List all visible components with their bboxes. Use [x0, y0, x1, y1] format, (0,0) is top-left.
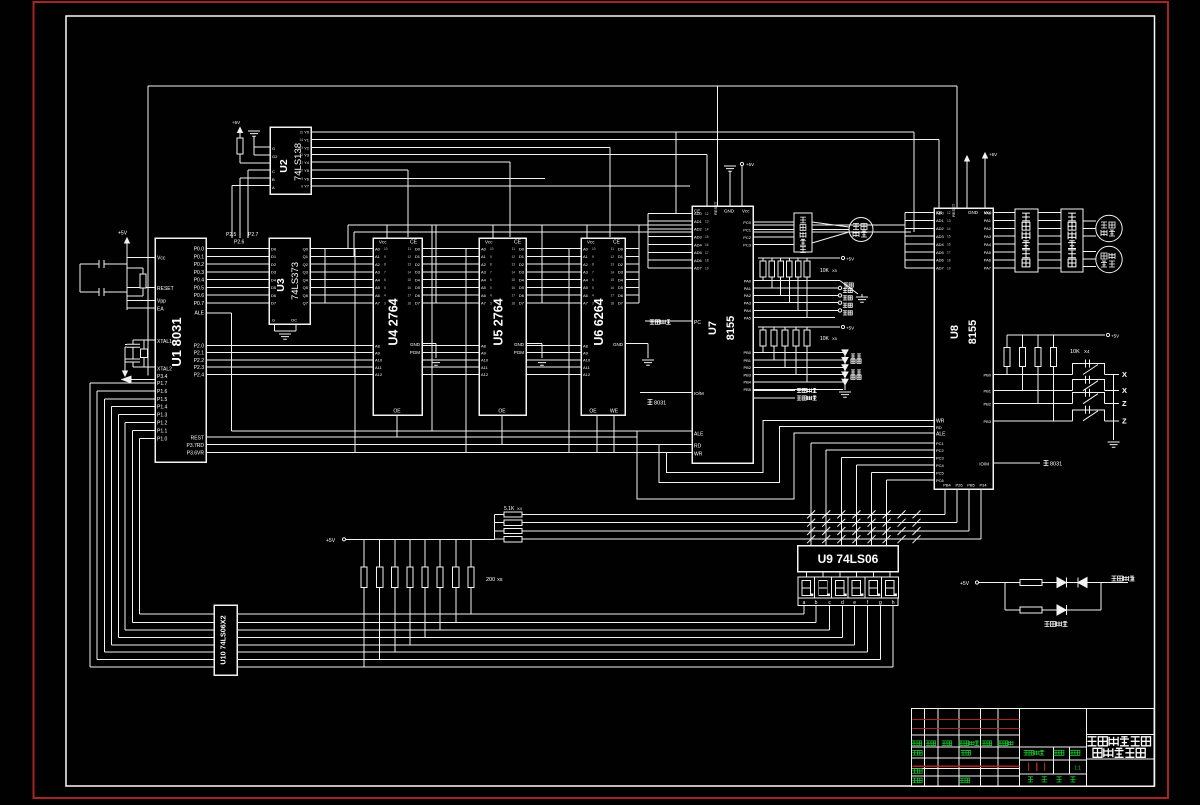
svg-text:D1: D1	[519, 254, 525, 259]
svg-text:A5: A5	[375, 285, 381, 290]
svg-text:12: 12	[407, 255, 411, 259]
svg-text:AD1: AD1	[936, 218, 945, 223]
svg-text:AD2: AD2	[936, 226, 945, 231]
svg-text:OE: OE	[589, 409, 597, 415]
svg-text:Y6: Y6	[304, 176, 310, 181]
svg-text:P1.5: P1.5	[157, 397, 168, 403]
svg-text:PA1: PA1	[744, 286, 752, 291]
svg-text:Y3: Y3	[304, 152, 310, 157]
svg-text:13: 13	[947, 219, 951, 223]
svg-text:A11: A11	[481, 365, 489, 370]
svg-text:A10: A10	[375, 358, 383, 363]
svg-text:AD6: AD6	[694, 258, 703, 263]
svg-text:15: 15	[511, 278, 515, 282]
svg-text:CE: CE	[410, 240, 418, 246]
svg-text:+5V: +5V	[846, 257, 854, 262]
svg-text:REST: REST	[191, 436, 204, 442]
svg-text:X5: X5	[832, 336, 838, 341]
svg-text:P0.6: P0.6	[194, 293, 205, 299]
svg-text:Q5: Q5	[303, 285, 309, 290]
svg-text:8155: 8155	[725, 316, 737, 340]
svg-text:74LS373: 74LS373	[290, 262, 301, 300]
svg-text:9: 9	[301, 177, 303, 181]
svg-text:PA4: PA4	[984, 242, 992, 247]
svg-text:A3: A3	[481, 270, 487, 275]
svg-text:PA0: PA0	[744, 278, 752, 283]
svg-text:17: 17	[511, 294, 515, 298]
svg-text:11: 11	[611, 247, 615, 251]
svg-text:G: G	[272, 318, 275, 323]
svg-text:D7: D7	[271, 301, 277, 306]
svg-text:ALE: ALE	[694, 432, 704, 438]
svg-text:A6: A6	[583, 293, 589, 298]
svg-text:A0: A0	[481, 246, 487, 251]
svg-text:8031: 8031	[654, 401, 666, 407]
svg-text:CE: CE	[613, 240, 621, 246]
svg-text:Vcc: Vcc	[157, 256, 166, 262]
svg-text:D1: D1	[415, 254, 421, 259]
svg-text:Vcc: Vcc	[379, 240, 387, 245]
svg-text:6: 6	[490, 278, 492, 282]
svg-text:10: 10	[384, 247, 388, 251]
svg-text:A4: A4	[583, 277, 589, 282]
svg-text:11: 11	[408, 247, 412, 251]
svg-text:14: 14	[705, 227, 709, 231]
svg-text:8: 8	[301, 184, 303, 188]
svg-text:19: 19	[705, 266, 709, 270]
svg-text:D0: D0	[271, 246, 277, 251]
svg-text:A11: A11	[375, 365, 383, 370]
svg-text:Vcc: Vcc	[587, 240, 595, 245]
svg-text:+5V: +5V	[232, 120, 240, 125]
svg-text:1:1: 1:1	[1074, 766, 1081, 772]
svg-text:P0.3: P0.3	[194, 270, 205, 276]
svg-text:P0.4: P0.4	[194, 278, 205, 284]
svg-text:g: g	[879, 600, 882, 606]
svg-text:17: 17	[705, 251, 709, 255]
svg-text:P0.2: P0.2	[194, 262, 205, 268]
svg-text:PC1: PC1	[743, 227, 752, 232]
svg-text:8031: 8031	[1050, 462, 1062, 468]
svg-text:PB4: PB4	[743, 380, 751, 385]
svg-text:A6: A6	[375, 293, 381, 298]
svg-text:Y7: Y7	[304, 184, 310, 189]
svg-text:D0: D0	[415, 246, 421, 251]
svg-text:4: 4	[384, 294, 386, 298]
svg-text:18: 18	[511, 301, 515, 305]
svg-text:A12: A12	[375, 372, 383, 377]
svg-text:WR: WR	[936, 418, 945, 424]
svg-text:A12: A12	[481, 372, 489, 377]
svg-text:D5: D5	[618, 285, 624, 290]
svg-text:P0.5: P0.5	[194, 285, 205, 291]
svg-text:OC: OC	[291, 318, 297, 323]
svg-text:D2: D2	[415, 262, 421, 267]
svg-text:WR: WR	[694, 452, 703, 458]
svg-text:PB1: PB1	[743, 358, 751, 363]
svg-text:P2.3: P2.3	[194, 365, 205, 371]
svg-text:+5V: +5V	[326, 538, 336, 544]
svg-text:14: 14	[299, 138, 303, 142]
svg-text:Y5: Y5	[304, 168, 310, 173]
svg-text:AD3: AD3	[694, 235, 703, 240]
svg-text:PC: PC	[694, 320, 701, 326]
svg-text:GND: GND	[613, 342, 624, 347]
svg-text:7: 7	[490, 270, 492, 274]
svg-text:14: 14	[610, 270, 614, 274]
svg-text:6: 6	[592, 278, 594, 282]
svg-text:16: 16	[947, 243, 951, 247]
svg-text:AD6: AD6	[936, 258, 945, 263]
svg-text:5.1K: 5.1K	[504, 506, 515, 512]
svg-text:P1.2: P1.2	[157, 421, 168, 427]
svg-text:GND: GND	[514, 342, 525, 347]
svg-text:GND: GND	[410, 342, 421, 347]
svg-text:X5: X5	[832, 268, 838, 273]
svg-text:P1.6: P1.6	[157, 389, 168, 395]
svg-text:12: 12	[610, 255, 614, 259]
svg-text:IO/M: IO/M	[979, 462, 989, 467]
svg-text:19: 19	[947, 266, 951, 270]
svg-text:P1.4: P1.4	[157, 405, 168, 411]
svg-text:14: 14	[947, 227, 951, 231]
svg-text:U8: U8	[949, 325, 961, 339]
svg-text:11: 11	[300, 161, 304, 165]
svg-text:D4: D4	[271, 277, 277, 282]
svg-text:15: 15	[610, 278, 614, 282]
svg-text:200: 200	[486, 577, 495, 583]
svg-text:13: 13	[299, 146, 303, 150]
svg-text:15: 15	[947, 235, 951, 239]
svg-text:13: 13	[511, 263, 515, 267]
svg-text:3: 3	[384, 301, 386, 305]
svg-text:7: 7	[384, 270, 386, 274]
svg-text:P3.7RD: P3.7RD	[186, 443, 204, 449]
svg-text:ALE: ALE	[195, 311, 205, 317]
svg-text:D4: D4	[618, 277, 624, 282]
svg-text:9: 9	[384, 255, 386, 259]
svg-text:10K: 10K	[1070, 349, 1080, 355]
svg-text:P3.6VR: P3.6VR	[187, 451, 205, 457]
svg-text:P2.4: P2.4	[194, 372, 205, 378]
svg-text:8: 8	[592, 263, 594, 267]
svg-text:AD1: AD1	[694, 219, 703, 224]
svg-text:10K: 10K	[820, 336, 830, 342]
svg-text:11: 11	[512, 247, 516, 251]
svg-text:EA: EA	[157, 307, 164, 313]
svg-text:13: 13	[407, 263, 411, 267]
svg-text:XTAL2: XTAL2	[157, 367, 172, 373]
svg-text:PC5: PC5	[936, 470, 945, 475]
svg-text:+5V: +5V	[846, 326, 854, 331]
svg-text:RESET: RESET	[713, 201, 718, 215]
svg-text:RESET: RESET	[951, 203, 956, 217]
svg-text:16: 16	[511, 286, 515, 290]
svg-text:3: 3	[592, 301, 594, 305]
svg-text:A4: A4	[375, 277, 381, 282]
svg-text:18: 18	[705, 259, 709, 263]
svg-text:Z: Z	[1122, 399, 1127, 408]
svg-text:h: h	[892, 600, 895, 606]
svg-text:Q4: Q4	[303, 277, 309, 282]
svg-text:4: 4	[490, 294, 492, 298]
svg-text:P2.5: P2.5	[226, 232, 237, 238]
svg-text:+5V: +5V	[746, 162, 754, 167]
svg-text:18: 18	[407, 301, 411, 305]
svg-text:CE: CE	[514, 240, 522, 246]
svg-text:Q0: Q0	[303, 246, 309, 251]
svg-text:A11: A11	[583, 365, 591, 370]
svg-text:D2: D2	[519, 262, 525, 267]
svg-text:10K: 10K	[820, 268, 830, 274]
svg-text:+5V: +5V	[118, 231, 128, 237]
svg-text:Vcc: Vcc	[485, 240, 493, 245]
svg-text:PGM: PGM	[514, 350, 525, 355]
svg-text:Y0: Y0	[304, 130, 310, 135]
svg-text:a: a	[803, 600, 806, 606]
svg-text:D3: D3	[618, 270, 624, 275]
svg-text:+5V: +5V	[1111, 334, 1119, 339]
svg-text:A0: A0	[375, 246, 381, 251]
svg-text:Y4: Y4	[304, 160, 310, 165]
svg-text:18: 18	[947, 258, 951, 262]
svg-text:A7: A7	[375, 301, 381, 306]
svg-text:U4 2764: U4 2764	[387, 298, 401, 345]
svg-text:P34: P34	[979, 483, 987, 488]
svg-text:A3: A3	[375, 270, 381, 275]
svg-text:Q1: Q1	[303, 254, 309, 259]
svg-text:PB3: PB3	[983, 419, 991, 424]
svg-text:12: 12	[947, 211, 951, 215]
svg-text:17: 17	[407, 294, 411, 298]
svg-text:A12: A12	[583, 372, 591, 377]
svg-text:PA1: PA1	[984, 218, 992, 223]
svg-text:P1.7: P1.7	[157, 381, 168, 387]
svg-text:X: X	[1122, 370, 1127, 379]
svg-text:A7: A7	[481, 301, 487, 306]
svg-text:12: 12	[511, 255, 515, 259]
svg-text:16: 16	[407, 286, 411, 290]
svg-text:5: 5	[592, 286, 594, 290]
svg-text:U9 74LS06: U9 74LS06	[818, 552, 879, 566]
svg-text:Q3: Q3	[303, 270, 309, 275]
svg-text:U6 6264: U6 6264	[592, 298, 606, 345]
svg-text:A8: A8	[583, 343, 589, 348]
svg-text:X4: X4	[1084, 349, 1090, 354]
svg-text:AD4: AD4	[936, 242, 945, 247]
svg-text:5: 5	[490, 286, 492, 290]
svg-text:A3: A3	[583, 270, 589, 275]
svg-text:PA2: PA2	[984, 226, 992, 231]
svg-text:D5: D5	[519, 285, 525, 290]
svg-text:PGM: PGM	[410, 350, 421, 355]
svg-text:G: G	[272, 146, 275, 151]
svg-text:A1: A1	[481, 254, 487, 259]
svg-text:Q7: Q7	[303, 301, 309, 306]
svg-text:10: 10	[490, 247, 494, 251]
svg-text:PB3: PB3	[743, 372, 751, 377]
svg-text:13: 13	[705, 220, 709, 224]
svg-text:7: 7	[592, 270, 594, 274]
svg-text:U2: U2	[278, 159, 290, 173]
svg-text:d: d	[841, 600, 844, 606]
svg-text:PA3: PA3	[744, 301, 752, 306]
svg-text:AD4: AD4	[694, 242, 703, 247]
svg-text:A8: A8	[375, 343, 381, 348]
svg-text:4: 4	[592, 294, 594, 298]
svg-text:AD7: AD7	[936, 266, 945, 271]
svg-text:D6: D6	[519, 293, 525, 298]
svg-text:Q2: Q2	[303, 262, 309, 267]
svg-text:U10 74LS06X2: U10 74LS06X2	[219, 615, 228, 664]
svg-text:PA7: PA7	[984, 266, 992, 271]
svg-text:10: 10	[299, 169, 303, 173]
svg-text:B: B	[272, 177, 275, 182]
svg-text:PB0: PB0	[983, 373, 991, 378]
svg-text:WE: WE	[610, 409, 619, 415]
svg-text:8155: 8155	[967, 320, 979, 344]
svg-text:PC2: PC2	[936, 448, 945, 453]
svg-text:PC0: PC0	[743, 220, 752, 225]
svg-text:D6: D6	[618, 293, 624, 298]
svg-text:RD: RD	[936, 425, 942, 430]
svg-text:A: A	[272, 185, 275, 190]
svg-text:6: 6	[384, 278, 386, 282]
svg-text:Vcc: Vcc	[742, 209, 750, 214]
svg-text:A9: A9	[583, 351, 589, 356]
svg-text:Y2: Y2	[304, 145, 310, 150]
svg-text:PC1: PC1	[936, 441, 945, 446]
svg-text:PC2: PC2	[743, 235, 752, 240]
svg-text:IO/M: IO/M	[694, 391, 704, 396]
svg-text:P2.2: P2.2	[194, 358, 205, 364]
svg-text:AD5: AD5	[936, 250, 945, 255]
svg-text:P2.1: P2.1	[194, 351, 205, 357]
svg-text:14: 14	[511, 270, 515, 274]
svg-text:12: 12	[705, 212, 709, 216]
svg-text:D7: D7	[618, 301, 624, 306]
svg-text:A0: A0	[583, 246, 589, 251]
svg-text:U5 2764: U5 2764	[492, 298, 506, 345]
svg-text:P1.3: P1.3	[157, 413, 168, 419]
svg-text:AD2: AD2	[694, 227, 703, 232]
svg-text:3: 3	[490, 301, 492, 305]
svg-text:A10: A10	[583, 358, 591, 363]
svg-text:P1.0: P1.0	[157, 436, 168, 442]
svg-text:8: 8	[490, 263, 492, 267]
svg-text:A2: A2	[583, 262, 589, 267]
svg-text:5: 5	[384, 286, 386, 290]
svg-text:+5V: +5V	[989, 152, 997, 157]
svg-text:PA5: PA5	[744, 316, 752, 321]
svg-text:AD0: AD0	[936, 210, 945, 215]
svg-text:PA4: PA4	[744, 308, 752, 313]
svg-text:A9: A9	[481, 351, 487, 356]
svg-text:13: 13	[610, 263, 614, 267]
svg-text:GND: GND	[968, 210, 979, 215]
svg-text:D5: D5	[415, 285, 421, 290]
svg-text:A1: A1	[583, 254, 589, 259]
svg-text:AD5: AD5	[694, 250, 703, 255]
svg-text:PA3: PA3	[984, 234, 992, 239]
svg-text:D7: D7	[519, 301, 525, 306]
svg-text:A2: A2	[375, 262, 381, 267]
svg-text:G2: G2	[272, 154, 278, 159]
svg-text:15: 15	[407, 278, 411, 282]
svg-text:D0: D0	[519, 246, 525, 251]
svg-text:A6: A6	[481, 293, 487, 298]
svg-text:D6: D6	[415, 293, 421, 298]
svg-text:D2: D2	[618, 262, 624, 267]
svg-text:GND: GND	[724, 209, 735, 214]
svg-text:A10: A10	[481, 358, 489, 363]
svg-text:P0.0: P0.0	[194, 247, 205, 253]
svg-text:Vpp: Vpp	[157, 299, 166, 305]
svg-text:AD3: AD3	[936, 234, 945, 239]
svg-text:17: 17	[947, 251, 951, 255]
svg-text:PB5: PB5	[743, 387, 751, 392]
svg-text:16: 16	[610, 286, 614, 290]
svg-text:A2: A2	[481, 262, 487, 267]
svg-text:PC3: PC3	[743, 242, 752, 247]
svg-text:A8: A8	[481, 343, 487, 348]
svg-text:RESET: RESET	[157, 286, 174, 292]
svg-text:U7: U7	[707, 321, 719, 335]
svg-text:PB2: PB2	[743, 365, 751, 370]
svg-text:D5: D5	[271, 285, 277, 290]
svg-text:15: 15	[299, 130, 303, 134]
svg-text:P3.4: P3.4	[157, 374, 168, 380]
svg-text:P0.7: P0.7	[194, 301, 205, 307]
svg-text:PB0: PB0	[743, 350, 751, 355]
svg-text:ALE: ALE	[936, 431, 946, 437]
svg-text:D6: D6	[271, 293, 277, 298]
svg-text:A9: A9	[375, 351, 381, 356]
svg-text:P1.1: P1.1	[157, 428, 168, 434]
svg-text:12: 12	[299, 153, 303, 157]
svg-text:9: 9	[592, 255, 594, 259]
svg-text:e: e	[853, 600, 856, 606]
svg-text:PB5: PB5	[967, 483, 975, 488]
svg-text:D2: D2	[271, 262, 277, 267]
svg-text:Z: Z	[1122, 416, 1127, 425]
svg-text:OE: OE	[498, 409, 506, 415]
svg-text:17: 17	[610, 294, 614, 298]
svg-text:AD0: AD0	[694, 211, 703, 216]
svg-text:P2.7: P2.7	[248, 232, 259, 238]
svg-text:b: b	[815, 600, 818, 606]
svg-text:X4: X4	[517, 506, 523, 511]
svg-text:Q6: Q6	[303, 293, 309, 298]
svg-text:PA6: PA6	[984, 258, 992, 263]
svg-text:P0.1: P0.1	[194, 254, 205, 260]
svg-text:A7: A7	[583, 301, 589, 306]
svg-text:PA2: PA2	[744, 293, 752, 298]
svg-text:X: X	[1122, 386, 1127, 395]
svg-text:XTAL1: XTAL1	[157, 339, 172, 345]
svg-text:X8: X8	[497, 577, 503, 582]
svg-text:Y1: Y1	[304, 137, 310, 142]
svg-text:16: 16	[705, 243, 709, 247]
svg-text:A5: A5	[583, 285, 589, 290]
svg-text:9: 9	[490, 255, 492, 259]
svg-text:P2.0: P2.0	[194, 344, 205, 350]
svg-text:D7: D7	[415, 301, 421, 306]
svg-text:OE: OE	[393, 409, 401, 415]
svg-text:D4: D4	[415, 277, 421, 282]
svg-text:P2.6: P2.6	[234, 240, 245, 246]
svg-text:8: 8	[384, 263, 386, 267]
